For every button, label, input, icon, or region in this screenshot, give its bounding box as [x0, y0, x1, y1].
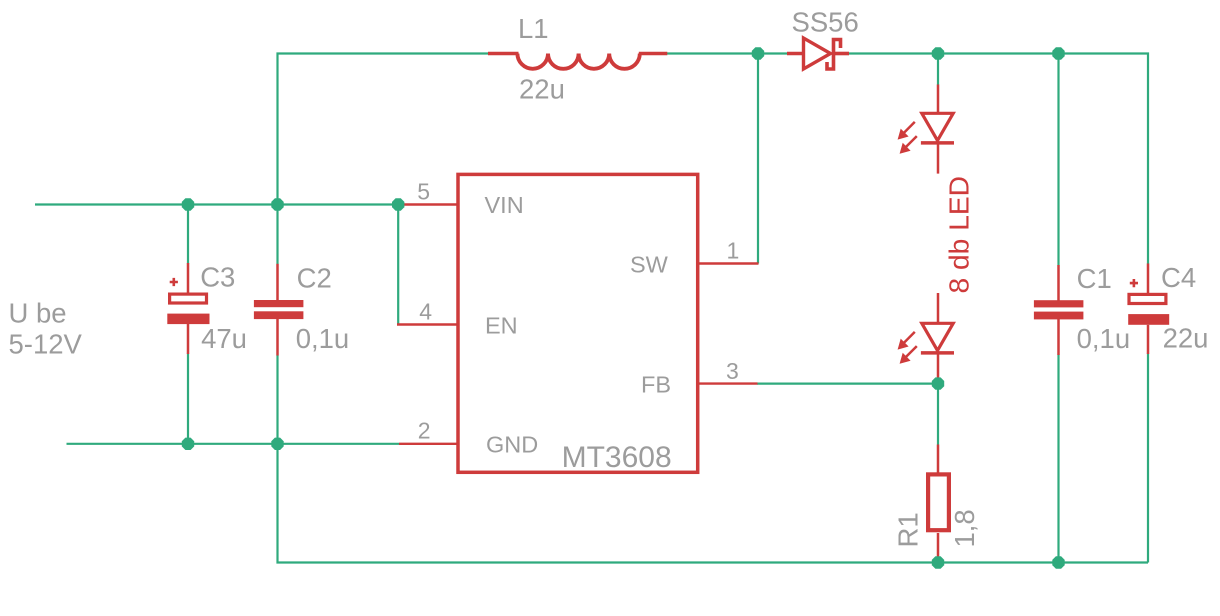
pin 4 stub EN	[397, 323, 458, 325]
capacitor C1 bottom plate	[1034, 312, 1084, 320]
junction node C1/bottom rail	[1052, 556, 1064, 568]
wire left vertical VIN to top rail	[278, 54, 491, 205]
wire top rail L1 to diode	[666, 52, 788, 54]
LED D3 cathode bar	[921, 351, 954, 355]
svg-text:0,1u: 0,1u	[296, 323, 350, 354]
junction node GND/C3	[182, 438, 194, 450]
pin 5 stub VIN	[398, 203, 458, 205]
capacitor C3 plus sign	[170, 278, 178, 286]
wire GND to bottom rail corner	[278, 444, 1149, 563]
svg-text:C2: C2	[297, 262, 332, 293]
svg-text:8 db LED: 8 db LED	[943, 176, 975, 294]
capacitor C4 top plate (hollow)	[1129, 294, 1166, 303]
svg-text:4: 4	[419, 299, 432, 325]
LED D2 cathode bar	[921, 141, 954, 145]
inductor L1 coil arcs	[517, 54, 639, 69]
svg-text:R1: R1	[893, 512, 924, 547]
junction node SW/top rail	[752, 47, 764, 59]
svg-text:SW: SW	[630, 251, 669, 277]
wire C3 branch upper	[187, 205, 189, 264]
wire top rail diode to right corner	[848, 54, 1148, 265]
LED D3 light arrow 1 shaft	[904, 332, 915, 343]
junction node GND/C2	[271, 438, 283, 450]
svg-text:47u: 47u	[201, 323, 247, 354]
wire FB junction to R1 green	[937, 384, 939, 445]
svg-text:EN: EN	[485, 312, 518, 338]
svg-text:FB: FB	[641, 371, 671, 397]
LED D2 light arrow 1 head	[898, 129, 909, 140]
junction node R1/bottom rail	[932, 556, 944, 568]
svg-text:C1: C1	[1077, 263, 1112, 294]
svg-text:0,1u: 0,1u	[1077, 323, 1131, 354]
wire C3 branch lower	[187, 354, 189, 444]
LED D3 light arrow 1 head	[898, 339, 909, 350]
diode D1 SS56 lead left	[787, 52, 805, 56]
capacitor C1 top plate	[1034, 300, 1084, 307]
svg-text:C3: C3	[200, 262, 235, 293]
svg-text:C4: C4	[1161, 262, 1196, 293]
wire C2 branch lower green	[276, 355, 278, 444]
svg-text:VIN: VIN	[485, 192, 524, 218]
LED D2 triangle	[922, 113, 953, 140]
svg-text:5: 5	[417, 179, 430, 205]
svg-text:U be: U be	[9, 298, 67, 329]
svg-text:2: 2	[418, 418, 431, 444]
resistor R1 bottom pin	[937, 533, 940, 563]
svg-text:1,8: 1,8	[949, 509, 980, 547]
diode D1 SS56 lead right	[835, 52, 849, 56]
capacitor C1 top pin	[1057, 265, 1060, 302]
LED D2 light arrow 1 shaft	[904, 122, 915, 133]
junction node VIN/C2	[271, 198, 283, 210]
wire LED branch top green	[937, 54, 939, 86]
inductor L1 lead right	[639, 52, 668, 55]
diode D1 SS56 schottky cathode bar	[827, 40, 841, 70]
capacitor C3 bottom pin	[187, 324, 190, 354]
capacitor C3 top plate (hollow)	[170, 294, 207, 303]
IC U1 MT3608 box	[458, 174, 698, 472]
junction node C1/top rail	[1052, 47, 1064, 59]
svg-text:3: 3	[726, 358, 739, 384]
capacitor C2 top pin	[276, 264, 279, 301]
svg-text:GND: GND	[486, 431, 538, 457]
LED D2 bottom pin	[937, 145, 940, 174]
junction node VIN/pin5	[392, 198, 404, 210]
capacitor C4 bottom plate (solid)	[1128, 314, 1169, 325]
wire C2 branch upper green	[276, 205, 278, 265]
capacitor C1 bottom pin	[1057, 319, 1060, 355]
capacitor C2 bottom plate	[254, 311, 304, 319]
pin 3 stub FB	[697, 382, 758, 384]
svg-text:22u: 22u	[519, 74, 565, 105]
wire FB horizontal	[757, 383, 938, 385]
wire EN branch vertical	[397, 205, 399, 324]
capacitor C3 top pin	[187, 263, 190, 294]
inductor L1 lead left	[488, 52, 519, 55]
LED D3 triangle	[922, 323, 953, 350]
capacitor C2 top plate	[254, 300, 304, 307]
pin 2 stub GND	[399, 443, 458, 445]
wire C1 branch upper	[1057, 54, 1059, 266]
diode D1 SS56 triangle	[804, 38, 831, 69]
capacitor C4 plus sign	[1130, 279, 1138, 287]
capacitor C2 bottom pin	[276, 319, 279, 356]
LED D2 light arrow 2 head	[900, 143, 911, 154]
wire right vertical lower (C4 bottom)	[1147, 354, 1149, 563]
svg-text:L1: L1	[518, 13, 549, 44]
pin 1 stub SW	[697, 262, 759, 264]
svg-text:1: 1	[727, 238, 740, 264]
svg-text:MT3608: MT3608	[562, 441, 672, 474]
wire C1 branch lower	[1057, 355, 1059, 563]
wire VIN input horizontal	[35, 203, 398, 205]
junction node LED string/top rail	[932, 47, 944, 59]
junction node VIN/C3	[182, 198, 194, 210]
LED D3 light arrow 2 head	[900, 353, 911, 364]
capacitor C4 top pin	[1147, 264, 1150, 295]
svg-text:5-12V: 5-12V	[9, 329, 83, 360]
LED D2 light arrow 2 shaft	[906, 136, 917, 147]
capacitor C4 bottom pin	[1147, 325, 1150, 354]
resistor R1 top pin	[937, 445, 940, 474]
LED D3 top pin	[937, 293, 940, 324]
LED D3 bottom pin	[937, 355, 940, 384]
resistor R1 body	[928, 474, 949, 530]
LED D3 light arrow 2 shaft	[906, 346, 917, 357]
wire GND input horizontal	[67, 443, 400, 445]
junction node FB/LED	[932, 377, 944, 389]
wire SW branch vertical	[757, 54, 759, 264]
capacitor C3 bottom plate (solid)	[167, 314, 209, 325]
svg-text:22u: 22u	[1163, 323, 1209, 354]
svg-text:SS56: SS56	[792, 6, 859, 37]
LED D2 top pin	[937, 85, 940, 115]
